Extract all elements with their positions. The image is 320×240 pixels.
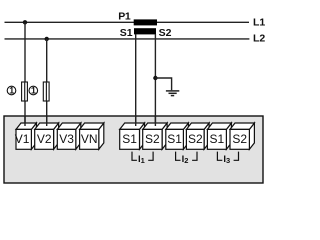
node A: junction on L1 (23, 20, 27, 24)
wire from L1 to terminal V1 (24, 22, 26, 126)
wire CT secondary S1 to terminal S1 (135, 34, 137, 126)
current transformer T1 secondary bar (134, 28, 156, 34)
terminal V1 (16, 123, 36, 149)
bracket I1 (132, 152, 153, 161)
svg-text:S1: S1 (210, 132, 225, 146)
svg-text:V1: V1 (15, 132, 30, 146)
terminal S2 (I1) (143, 123, 167, 149)
svg-text:V2: V2 (37, 132, 52, 146)
ground (166, 91, 179, 96)
fuse F2 (43, 82, 49, 101)
wire L2 (5, 38, 250, 40)
terminal S2 (I3) (230, 123, 254, 149)
svg-text:S1: S1 (120, 27, 133, 39)
node B: junction on L2 (45, 37, 49, 41)
terminal S2 (I2) (186, 123, 209, 149)
svg-text:I3: I3 (223, 154, 230, 165)
svg-text:S2: S2 (188, 132, 203, 146)
bracket I2 (176, 152, 197, 161)
wire stub into V1 (24, 117, 26, 127)
footnote marker 1 (right fuse) (29, 86, 38, 96)
bracket I3 (217, 152, 238, 161)
wire stub into terminal S1 (135, 117, 137, 127)
svg-text:S2: S2 (232, 132, 247, 146)
terminal V2 (35, 123, 59, 149)
svg-text:S1: S1 (167, 132, 182, 146)
svg-text:I1: I1 (138, 154, 145, 165)
wire to ground (155, 78, 171, 90)
svg-text:VN: VN (81, 132, 98, 146)
wire L1 (5, 21, 250, 23)
terminal S1 (I2) (166, 123, 189, 149)
terminal S1 (I1) (120, 123, 145, 149)
wire through fuse F1 (24, 82, 26, 101)
svg-text:P1: P1 (118, 11, 131, 23)
svg-text:1: 1 (31, 86, 36, 96)
terminal VN (80, 123, 104, 149)
svg-text:L1: L1 (253, 17, 265, 29)
wire stub into terminal S2 (154, 117, 156, 127)
current transformer T1 primary bar P1 (134, 19, 157, 25)
svg-text:1: 1 (9, 86, 14, 96)
terminal S1 (I3) (207, 123, 231, 149)
wire through fuse F2 (45, 82, 47, 101)
fuse F1 (22, 82, 28, 101)
wire stub into V2 (46, 117, 48, 127)
terminal block housing (4, 116, 263, 183)
wire from L2 to terminal V2 (46, 39, 48, 126)
svg-text:S2: S2 (159, 27, 172, 39)
svg-text:S1: S1 (122, 132, 137, 146)
svg-text:L2: L2 (253, 32, 265, 44)
footnote marker 1 (left fuse) (7, 86, 16, 96)
svg-text:I2: I2 (182, 154, 189, 165)
terminal V3 (57, 123, 81, 149)
node C: junction on S2 wire (153, 76, 157, 80)
svg-text:S2: S2 (145, 132, 160, 146)
wire CT secondary S2 to terminal S2 (154, 34, 156, 126)
svg-text:V3: V3 (59, 132, 74, 146)
